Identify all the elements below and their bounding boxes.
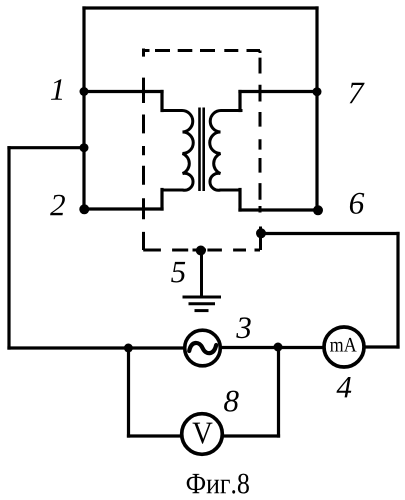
transformer T1 primary winding: [161, 110, 194, 190]
wire voltmeter branch right vertical: [277, 347, 280, 436]
ref label 8: [224, 391, 239, 412]
wire node 7 to secondary winding top: [240, 90, 317, 93]
node junction on shield right edge: [256, 228, 266, 238]
voltmeter PV1 (8): [182, 414, 223, 455]
wire node 1 to primary winding top: [84, 90, 162, 93]
shield box top dashed edge: [142, 49, 260, 52]
wire outer right vertical: [396, 234, 399, 348]
AC source G1 (3): [185, 330, 221, 366]
wire node 5 to ground: [200, 250, 203, 296]
node junction bottom left of source: [124, 344, 133, 353]
node 6 junction: [313, 205, 323, 215]
node 2 junction: [79, 204, 89, 214]
node 1 junction: [80, 87, 89, 96]
wire shield tap to outer right: [261, 232, 398, 235]
wire left middle branch from node junction to outer left: [9, 146, 84, 149]
wire outer left vertical: [7, 148, 10, 348]
wire secondary top step: [238, 92, 241, 111]
milliammeter label mA: [330, 338, 357, 352]
voltmeter label V: [193, 423, 213, 444]
transformer T1 secondary winding: [210, 110, 243, 190]
wire node 2 to primary winding bottom: [84, 207, 162, 210]
wire voltmeter branch right horizontal: [223, 434, 279, 437]
pin label 7: [350, 83, 365, 104]
node 7 junction: [313, 87, 322, 96]
wire voltmeter branch left vertical: [127, 348, 130, 436]
AC source sine symbol: [189, 343, 216, 353]
wire right bus vertical from top through node 7 to node 6: [315, 8, 318, 210]
pin label 5: [171, 262, 185, 283]
caption Фиг.8: [187, 474, 249, 494]
transformer T1 core: [200, 108, 204, 192]
wire primary bottom step: [160, 190, 163, 210]
ground: [183, 297, 222, 311]
wire primary top step: [160, 92, 163, 111]
node 5 junction on shield: [196, 246, 206, 256]
wire AC source to mA meter: [221, 346, 324, 349]
wire left bus vertical through nodes 1 and 2: [82, 8, 85, 209]
shield screen dashed box: [142, 49, 261, 251]
wire secondary bottom step: [238, 190, 241, 211]
pin label 1: [51, 79, 62, 99]
shield box left dashed edge: [142, 49, 145, 251]
ref label 4: [337, 377, 352, 397]
pin label 2: [50, 195, 65, 216]
wire top loop from pin 1 side to pin 7 side: [84, 6, 317, 9]
wire secondary winding bottom to node 6: [240, 208, 318, 211]
wire mA meter to outer right: [365, 345, 399, 348]
milliammeter PA1 (4): [324, 327, 364, 367]
shield box right dashed edge: [259, 51, 263, 251]
ref label 3: [236, 317, 250, 338]
node junction bottom right of source: [274, 343, 283, 352]
wire voltmeter branch left horizontal: [129, 434, 182, 437]
node junction left middle: [80, 143, 89, 152]
pin label 6: [350, 193, 364, 214]
wire bottom to AC source: [9, 346, 184, 349]
shield box bottom dashed edge: [143, 249, 260, 252]
